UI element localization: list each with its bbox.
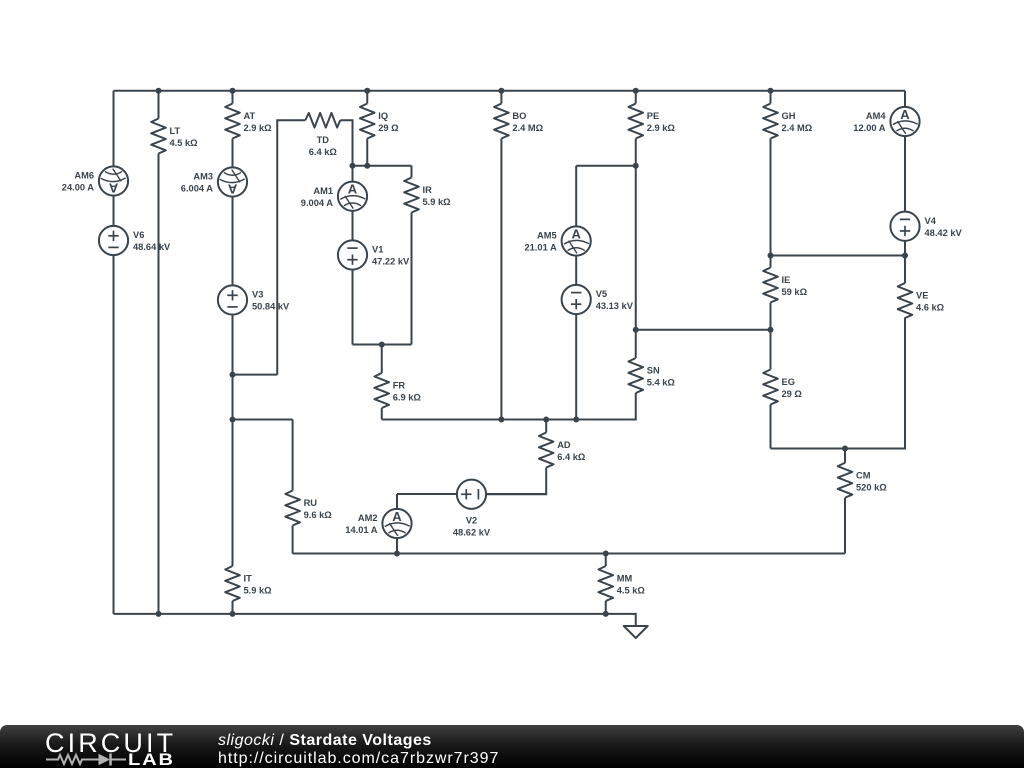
svg-text:V5: V5 <box>596 289 607 299</box>
svg-text:V2: V2 <box>466 516 477 526</box>
svg-text:4.5 kΩ: 4.5 kΩ <box>617 586 646 596</box>
wire FR upper lead <box>381 345 383 374</box>
voltage source V4 48.42 kV <box>890 212 962 241</box>
svg-text:48.62 kV: 48.62 kV <box>453 528 491 538</box>
resistor FR 6.9 kΩ <box>374 373 421 408</box>
svg-text:CM: CM <box>856 470 871 480</box>
svg-text:PE: PE <box>647 111 659 121</box>
svg-text:5.9 kΩ: 5.9 kΩ <box>423 197 452 207</box>
svg-text:A: A <box>227 182 237 197</box>
wire LT column lower lead to bottom rail <box>158 154 160 614</box>
svg-text:50.84 kV: 50.84 kV <box>252 302 290 312</box>
node junction 18 <box>543 417 549 423</box>
resistor IT 5.9 kΩ <box>225 566 272 601</box>
svg-text:V4: V4 <box>925 216 937 226</box>
wire AM4/V4 column <box>904 91 906 256</box>
node junction 2 <box>230 88 236 94</box>
wire node V3-TD horizontal at y375 <box>233 374 278 376</box>
ammeter AM4 12.00 A <box>853 107 919 136</box>
svg-text:2.4 MΩ: 2.4 MΩ <box>782 123 813 133</box>
wire AM2 column <box>396 494 398 554</box>
wire IR lower lead <box>411 213 413 345</box>
node junction 9 <box>633 163 639 169</box>
resistor VE 4.6 kΩ <box>898 283 945 318</box>
wire BO lower lead <box>500 139 502 420</box>
wire CM upper lead <box>844 449 846 463</box>
wire MM upper lead <box>605 554 607 567</box>
svg-text:IR: IR <box>423 185 433 195</box>
wire node GH-V4 horizontal at y255 <box>771 255 906 257</box>
svg-text:LT: LT <box>170 126 181 136</box>
node junction 20 <box>842 446 848 452</box>
voltage source V5 43.13 kV <box>562 285 634 314</box>
ammeter AM3 6.004 A <box>181 167 247 196</box>
wire BO upper lead <box>500 91 502 104</box>
svg-text:5.4 kΩ: 5.4 kΩ <box>647 378 676 388</box>
wire AM5/V5 column <box>575 166 577 420</box>
resistor GH 2.4 MΩ <box>763 104 813 139</box>
svg-text:V1: V1 <box>372 245 383 255</box>
wire LT column upper lead <box>158 91 160 119</box>
svg-text:BO: BO <box>512 111 526 121</box>
svg-text:AT: AT <box>244 111 256 121</box>
voltage source V6 48.64 kV <box>99 226 171 255</box>
resistor BO 2.4 MΩ <box>494 104 544 139</box>
wire PE upper lead <box>635 91 637 104</box>
node junction 3 <box>364 88 370 94</box>
node junction 10 <box>768 253 774 259</box>
node junction 12 <box>633 327 639 333</box>
node junction 15 <box>230 372 236 378</box>
svg-text:MM: MM <box>617 574 633 584</box>
node junction 11 <box>902 253 908 259</box>
svg-text:AM5: AM5 <box>537 231 557 241</box>
node junction 23 <box>156 611 162 617</box>
wire GH to IE <box>770 139 772 268</box>
svg-text:14.01 A: 14.01 A <box>345 525 378 535</box>
resistor MM 4.5 kΩ <box>598 566 645 601</box>
svg-text:A: A <box>392 509 402 524</box>
svg-text:47.22 kV: 47.22 kV <box>372 257 410 267</box>
node junction 21 <box>394 551 400 557</box>
node junction 1 <box>156 88 162 94</box>
svg-text:6.004 A: 6.004 A <box>181 184 214 194</box>
wire MM lower lead <box>605 601 607 614</box>
node junction 24 <box>230 611 236 617</box>
wire IQ upper lead <box>366 91 368 104</box>
wire node AM1-IR horizontal at y166 <box>353 165 412 167</box>
wire EG lower lead <box>770 405 772 449</box>
node junction 14 <box>379 342 385 348</box>
wire CM lower lead <box>844 498 846 554</box>
wire FR lower lead <box>381 408 383 420</box>
wire mid rail y419 (FR to SN) <box>382 393 636 420</box>
svg-text:2.4 MΩ: 2.4 MΩ <box>512 123 543 133</box>
svg-text:V3: V3 <box>252 290 263 300</box>
wire IT lower lead to bottom rail <box>232 601 234 614</box>
voltage source V1 47.22 kV <box>338 240 410 269</box>
wire bottom rail <box>114 614 636 626</box>
svg-text:AD: AD <box>557 440 571 450</box>
resistor TD 6.4 kΩ (horizontal) <box>305 113 340 157</box>
resistor AD 6.4 kΩ <box>539 433 586 468</box>
node junction 22 <box>603 551 609 557</box>
wire AT/AM3/V3/IT column <box>232 139 234 567</box>
resistor RU 9.6 kΩ <box>285 491 332 526</box>
wire PE to SN column <box>635 139 637 359</box>
resistor IQ 29 Ω <box>360 104 399 139</box>
wire AM1/V1 column <box>352 166 354 345</box>
wire IR upper lead <box>411 166 413 178</box>
svg-text:6.9 kΩ: 6.9 kΩ <box>393 393 422 403</box>
wire EG-VE bottom rail y448 <box>771 318 906 449</box>
ammeter AM1 9.004 A <box>301 182 367 211</box>
svg-text:6.4 kΩ: 6.4 kΩ <box>557 452 586 462</box>
node junction 13 <box>768 327 774 333</box>
wire TD right lead down to AM1 node <box>340 120 352 166</box>
svg-text:V6: V6 <box>133 230 144 240</box>
svg-text:4.6 kΩ: 4.6 kΩ <box>916 303 945 313</box>
resistor IR 5.9 kΩ <box>404 178 451 213</box>
svg-text:IE: IE <box>782 275 791 285</box>
svg-text:EG: EG <box>782 377 795 387</box>
wire left rail (AM6/V6 branch down to bottom rail) <box>113 91 115 614</box>
svg-text:9.004 A: 9.004 A <box>301 198 334 208</box>
svg-text:43.13 kV: 43.13 kV <box>596 301 634 311</box>
svg-text:AM3: AM3 <box>193 172 213 182</box>
node junction 5 <box>633 88 639 94</box>
wire VE upper lead <box>904 256 906 284</box>
wire IE to EG <box>770 303 772 370</box>
svg-text:21.01 A: 21.01 A <box>524 243 557 253</box>
wire V1-IR bottom horizontal at y344 <box>353 344 412 346</box>
wire AT column upper lead <box>232 91 234 104</box>
node junction 17 <box>498 417 504 423</box>
resistor PE 2.9 kΩ <box>628 104 675 139</box>
resistor IE 59 kΩ <box>763 268 807 303</box>
svg-text:SN: SN <box>647 366 660 376</box>
ammeter AM5 21.01 A <box>524 226 590 255</box>
svg-text:9.6 kΩ: 9.6 kΩ <box>304 510 333 520</box>
svg-text:AM6: AM6 <box>74 171 94 181</box>
wire IQ lower lead <box>366 139 368 166</box>
svg-text:RU: RU <box>304 498 318 508</box>
wire RU upper lead <box>292 420 294 491</box>
svg-text:GH: GH <box>782 111 796 121</box>
resistor LT 4.5 kΩ <box>151 119 198 154</box>
svg-text:IQ: IQ <box>378 111 388 121</box>
node junction 16 <box>230 417 236 423</box>
voltage source V2 48.62 kV (horizontal) <box>453 480 491 538</box>
svg-text:A: A <box>572 226 582 241</box>
node junction 19 <box>573 417 579 423</box>
svg-text:2.9 kΩ: 2.9 kΩ <box>244 123 273 133</box>
svg-text:520 kΩ: 520 kΩ <box>856 482 887 492</box>
voltage source V3 50.84 kV <box>218 285 290 314</box>
wire RU lower lead <box>292 526 294 554</box>
wire node SN-IE horizontal at y330 <box>636 329 771 331</box>
node junction 6 <box>768 88 774 94</box>
wire top rail <box>114 90 906 92</box>
wire TD left lead <box>277 120 305 374</box>
svg-text:48.42 kV: 48.42 kV <box>925 228 963 238</box>
wire node V3-RU horizontal at y419 <box>233 419 293 421</box>
CircuitLab logo <box>45 728 176 759</box>
svg-text:AM4: AM4 <box>866 111 886 121</box>
resistor AT 2.9 kΩ <box>225 104 272 139</box>
node junction 4 <box>498 88 504 94</box>
resistor EG 29 Ω <box>763 370 802 405</box>
svg-text:A: A <box>348 182 358 197</box>
svg-text:2.9 kΩ: 2.9 kΩ <box>647 123 676 133</box>
svg-text:48.64 kV: 48.64 kV <box>133 242 171 252</box>
svg-text:A: A <box>108 181 118 196</box>
wire lower rail y553 (RU to CM) <box>293 553 845 555</box>
resistor CM 520 kΩ <box>838 463 888 498</box>
svg-text:29 Ω: 29 Ω <box>378 123 399 133</box>
wire AD upper lead <box>545 420 547 433</box>
svg-text:TD: TD <box>317 135 330 145</box>
svg-text:VE: VE <box>916 291 928 301</box>
svg-text:6.4 kΩ: 6.4 kΩ <box>309 147 338 157</box>
svg-text:AM1: AM1 <box>313 186 333 196</box>
svg-text:59 kΩ: 59 kΩ <box>782 287 808 297</box>
svg-text:FR: FR <box>393 381 406 391</box>
svg-text:A: A <box>900 107 910 122</box>
node junction 25 <box>603 611 609 617</box>
ammeter AM6 24.00 A <box>62 166 128 195</box>
ammeter AM2 14.01 A <box>345 509 411 538</box>
svg-text:4.5 kΩ: 4.5 kΩ <box>170 138 199 148</box>
wire AD lower lead to V2 <box>486 468 546 495</box>
svg-text:5.9 kΩ: 5.9 kΩ <box>244 586 273 596</box>
svg-text:IT: IT <box>244 574 253 584</box>
svg-text:29 Ω: 29 Ω <box>782 389 803 399</box>
wire GH upper lead <box>770 91 772 104</box>
svg-text:12.00 A: 12.00 A <box>853 123 886 133</box>
svg-text:AM2: AM2 <box>358 513 378 523</box>
ground <box>624 626 648 638</box>
svg-text:24.00 A: 24.00 A <box>62 183 95 193</box>
node junction 8 <box>364 163 370 169</box>
node junction 7 <box>350 163 356 169</box>
wire AM5 top horizontal to PE <box>576 165 636 167</box>
resistor SN 5.4 kΩ <box>628 358 675 393</box>
wire AM2-V2-AD horizontal at y494 <box>397 493 546 495</box>
